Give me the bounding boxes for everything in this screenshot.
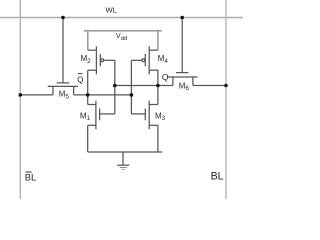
wire node Q to M6 and cross-coupling from M1/M2 gates [115, 85, 173, 87]
transistor M3 channel bar [148, 101, 150, 130]
wire M4 gate lead [131, 59, 142, 61]
transistor M1 gate bar [99, 109, 101, 121]
wire Vdd drop to M2 source [87, 31, 89, 50]
label Q-bar overline [78, 73, 83, 75]
transistor M3 gate bar [144, 109, 146, 121]
ground stem [122, 152, 124, 165]
wire ground rail [88, 151, 163, 153]
transistor M1 channel bar [95, 101, 97, 130]
transistor M2 gate bar [99, 54, 101, 66]
transistor M2 PMOS bubble [101, 59, 104, 62]
wire M3 gate lead [131, 113, 145, 115]
svg-text:BL: BL [25, 171, 36, 182]
transistor M2 drain stub (bottom) [88, 69, 97, 71]
wire left inverter gate vertical (M2/M1 gates) [114, 60, 116, 114]
transistor M4 channel bar [148, 46, 150, 74]
transistor M5 channel bar [48, 85, 78, 87]
wire WL word line [0, 17, 243, 19]
svg-text:Q: Q [162, 72, 169, 82]
transistor M6 gate bar [176, 72, 188, 74]
wire M6 to BL [193, 85, 226, 87]
transistor M5 gate lead from WL [62, 18, 64, 83]
junction dot WL / M5 gate [61, 16, 65, 20]
wire Vdd drop to M4 source [157, 31, 159, 50]
transistor M4 source stub (top) [149, 49, 158, 51]
transistor M6 gate lead from WL [181, 18, 183, 73]
wire M3 source to ground rail [157, 125, 159, 152]
transistor M2 source stub (top) [88, 49, 97, 51]
junction dot node Q [156, 84, 160, 88]
svg-text:WL: WL [106, 5, 117, 14]
transistor M4 gate bar [144, 54, 146, 66]
wire M2 gate lead [104, 59, 115, 61]
ground bar 1 [117, 164, 129, 166]
junction dot upper cross wire / left gate vertical [113, 84, 117, 88]
wire node Q-bar vertical (M2 drain to M1 drain) [87, 70, 89, 104]
transistor M5 right stub [73, 86, 75, 95]
wire M5 to BL-bar [20, 94, 53, 96]
svg-text:Q: Q [77, 75, 83, 84]
ground bar 3 [122, 169, 125, 171]
transistor M6 right stub [192, 77, 194, 86]
transistor M5 left stub [52, 86, 54, 95]
svg-text:BL: BL [211, 170, 224, 182]
transistor M6 channel bar [167, 76, 197, 78]
junction dot lower cross wire / right gate vertical [130, 93, 134, 97]
transistor M6 left stub [172, 77, 174, 86]
transistor M2 channel bar [95, 46, 97, 74]
ground bar 2 [120, 167, 127, 169]
wire M1 gate lead [100, 113, 115, 115]
junction dot BL / M6 [224, 84, 228, 88]
transistor M3 drain stub (top) [149, 104, 158, 106]
wire BL bit line (right) [225, 0, 227, 199]
wire M5 to node Q-bar and cross-coupling to M3/M4 gates [74, 94, 132, 96]
transistor M4 PMOS bubble [142, 59, 145, 62]
transistor M1 source stub (bottom) [88, 124, 96, 126]
label BL-bar overline [25, 171, 31, 173]
transistor M5 gate bar [57, 82, 69, 84]
wire M1 source to ground rail [87, 125, 89, 152]
junction dot WL / M6 gate [180, 16, 184, 20]
wire BL-bar bit line (left) [19, 0, 21, 199]
wire node Q vertical (M4 drain to M3 drain) [157, 70, 159, 104]
transistor M1 drain stub (top) [88, 104, 96, 106]
junction dot BL-bar / M5 [19, 93, 23, 97]
wire Vdd rail [84, 30, 162, 32]
transistor M4 drain stub (bottom) [149, 69, 158, 71]
junction dot node Q-bar [86, 93, 90, 97]
transistor M3 source stub (bottom) [149, 124, 158, 126]
wire right inverter gate vertical (M4/M3 gates) [130, 60, 132, 114]
